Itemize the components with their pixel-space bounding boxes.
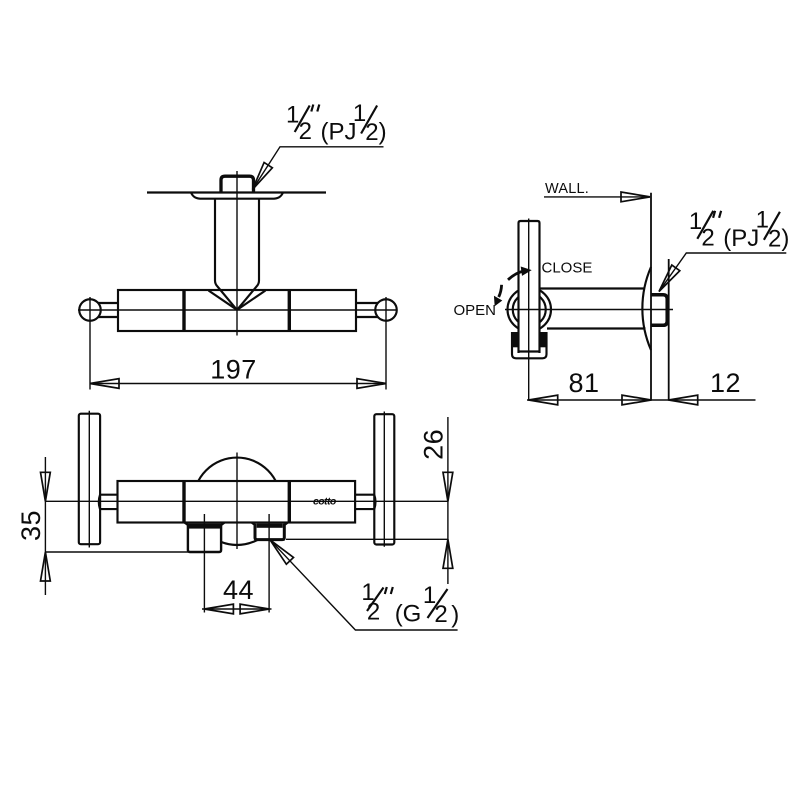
svg-text:197: 197 (210, 355, 257, 385)
body divider right (bold) (288, 290, 291, 331)
riser pipe right side (237, 199, 259, 310)
ceiling flange (plan) (191, 193, 283, 199)
dimension 44 (202, 514, 272, 614)
wall flange arc (side) (642, 267, 651, 350)
spout outlet nut (right, front) (252, 523, 288, 540)
left handle knob circle (79, 299, 101, 321)
svg-text:2: 2 (367, 599, 380, 626)
dimension 26 (286, 417, 453, 584)
left handle centerline (88, 411, 90, 548)
svg-text:1: 1 (689, 208, 702, 235)
body divider right (front, bold) (288, 481, 291, 523)
leader for G label (266, 536, 457, 630)
dimension 35 (16, 457, 188, 595)
riser pipe left side (215, 199, 237, 310)
svg-text:1: 1 (756, 206, 769, 233)
svg-text:44: 44 (223, 575, 254, 605)
leader for right PJ label (655, 253, 786, 294)
right handle knob circle (375, 299, 397, 321)
side view horizontal centerline (505, 309, 673, 311)
left handle disk (front) (79, 414, 100, 545)
leader for top PJ label (248, 147, 383, 192)
valve pipe to wall (side) (539, 289, 646, 329)
svg-text:OPEN: OPEN (454, 302, 497, 319)
svg-text:CLOSE: CLOSE (542, 259, 593, 276)
handle lever (side) (519, 221, 540, 353)
handle base bracket (511, 332, 547, 358)
plan vertical centerline (236, 171, 238, 336)
wall nipple (side, bold) (651, 295, 667, 326)
right stem (plan) (356, 303, 378, 317)
svg-text:12: 12 (710, 368, 741, 398)
inner handle circle (side) (513, 293, 546, 326)
svg-text:35: 35 (16, 510, 46, 541)
label 1/2"(G 1/2) bottom (361, 579, 459, 629)
WALL. label (544, 181, 650, 202)
label 1/2"(PJ1/2) right (689, 206, 790, 252)
svg-text:1: 1 (286, 102, 299, 129)
svg-text:(PJ: (PJ (723, 225, 759, 252)
svg-text:(PJ: (PJ (321, 119, 357, 146)
label 1/2"(PJ1/2) top (286, 100, 387, 146)
svg-text:81: 81 (568, 368, 599, 398)
right handle centerline (383, 412, 385, 547)
right stem (front) (355, 495, 375, 509)
svg-text:): ) (781, 225, 789, 252)
left stem (front) (99, 495, 118, 509)
valve body (front) (118, 481, 356, 523)
body divider left (bold) (182, 290, 185, 331)
front view horizontal axis (45, 500, 448, 502)
svg-text:26: 26 (419, 429, 449, 460)
dimension 81 and 12 (527, 368, 756, 405)
cartridge dome circle (193, 458, 280, 545)
svg-text:1: 1 (353, 100, 366, 127)
inlet nipple (plan, bold) (221, 176, 254, 192)
handle centerline / extension (528, 219, 530, 401)
body divider left (front, bold) (182, 481, 185, 523)
plan horizontal centerline (78, 309, 396, 311)
right handle disk (front) (374, 414, 394, 544)
outer handle circle (side) (508, 288, 552, 332)
svg-text:2: 2 (365, 119, 378, 146)
svg-text:): ) (451, 602, 459, 629)
dimension 197 (90, 297, 386, 390)
front view vertical centerline (236, 453, 238, 550)
wall line (plan) (147, 191, 326, 193)
valve body (plan) (118, 290, 356, 331)
open direction arrow (495, 285, 502, 306)
wall front line (650, 193, 652, 401)
svg-text:2: 2 (299, 118, 312, 145)
svg-text:(G: (G (395, 601, 422, 628)
left stem (plan) (98, 303, 118, 317)
svg-text:2: 2 (701, 224, 714, 251)
tee chamfer left (209, 291, 237, 310)
tee chamfer right (238, 291, 266, 310)
wall back line (668, 259, 670, 401)
svg-text:WALL.: WALL. (545, 181, 589, 197)
shower outlet (left, front) (184, 523, 224, 552)
svg-text:2: 2 (434, 601, 447, 628)
svg-text:2: 2 (768, 225, 781, 252)
svg-text:): ) (379, 119, 387, 146)
close direction arrow (508, 267, 531, 280)
